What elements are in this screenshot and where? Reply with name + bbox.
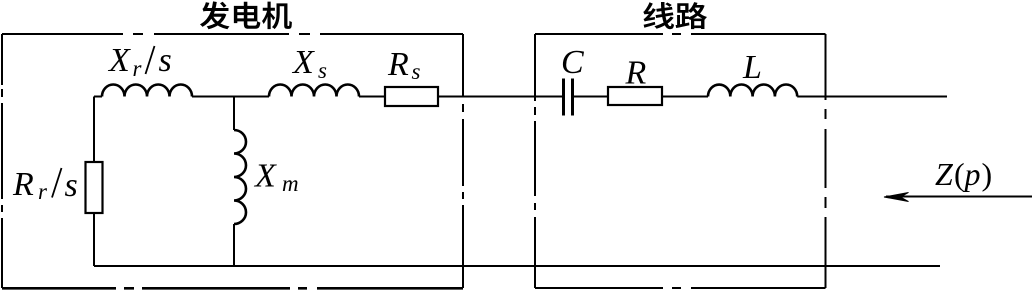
title 发电机 (generator)	[200, 1, 292, 29]
svg-text:s: s	[65, 167, 78, 204]
svg-text:L: L	[742, 49, 762, 86]
svg-text:X: X	[291, 44, 315, 81]
slash of X_r/s	[146, 46, 155, 74]
svg-text:R: R	[387, 46, 409, 83]
title 线路 (line)	[643, 2, 707, 29]
resistor Rs	[385, 87, 438, 106]
svg-text:X: X	[253, 158, 277, 195]
wire: resistor R to inductor L	[662, 96, 708, 98]
left branch: wire from corner (94,96) down to Rr/s resistor	[93, 97, 95, 163]
resistor R	[608, 87, 662, 105]
label R_s	[387, 46, 421, 84]
svg-text:C: C	[561, 44, 584, 81]
wire: Rr/s resistor to bottom wire	[93, 213, 95, 266]
arrow Z(p): shaft pointing left	[886, 196, 1032, 198]
svg-text:s: s	[412, 59, 421, 84]
subsystem box 发电机 (generator), dash-dot border	[2, 33, 463, 35]
resistor Rr/s (vertical)	[86, 162, 103, 213]
inductor Xm coil (vertical, 4 humps, bulge right)	[234, 130, 246, 224]
inductor Xs coil (4 humps)	[269, 85, 359, 97]
middle branch: wire from node (234,96) down to Xm coil	[233, 97, 235, 131]
wire: Xs coil to Rs resistor	[359, 96, 385, 98]
svg-text:Z: Z	[935, 156, 954, 192]
label Z(p)	[935, 156, 992, 192]
svg-text:s: s	[318, 58, 327, 83]
inductor Xr/s coil (4 humps)	[102, 85, 192, 97]
inductor L coil (4 humps)	[708, 85, 797, 97]
svg-text:R: R	[625, 55, 647, 92]
label X_r/s	[107, 42, 172, 81]
svg-text:p: p	[963, 156, 981, 192]
wire: Xr/s coil to Xs coil (through node at x=234)	[192, 96, 269, 98]
subsystem box 线路 (line), dash-dot border	[535, 33, 826, 35]
slash of R_r/s	[52, 168, 62, 198]
label X_s	[291, 44, 327, 83]
label R_r/s	[12, 166, 78, 204]
svg-text:X: X	[107, 42, 131, 79]
wire: Xm coil to bottom wire	[233, 224, 235, 266]
bottom return wire	[94, 265, 940, 267]
svg-text:R: R	[12, 166, 34, 203]
label X_m	[253, 158, 299, 197]
svg-text:m: m	[282, 171, 299, 196]
wire: top-left stub to Xr/s coil	[94, 96, 102, 98]
svg-text:(: (	[954, 156, 965, 192]
wire: capacitor C to resistor R	[574, 96, 608, 98]
capacitor C plates	[564, 79, 573, 116]
svg-text:s: s	[159, 42, 172, 79]
svg-text:r: r	[38, 179, 48, 204]
svg-text:): )	[982, 156, 993, 192]
wire: Rs resistor to capacitor C (crosses both box borders)	[438, 96, 563, 98]
arrow Z(p): arrowhead	[884, 193, 909, 202]
wire: inductor L to open terminal (crosses line-box border)	[797, 96, 947, 98]
svg-text:r: r	[133, 56, 143, 81]
